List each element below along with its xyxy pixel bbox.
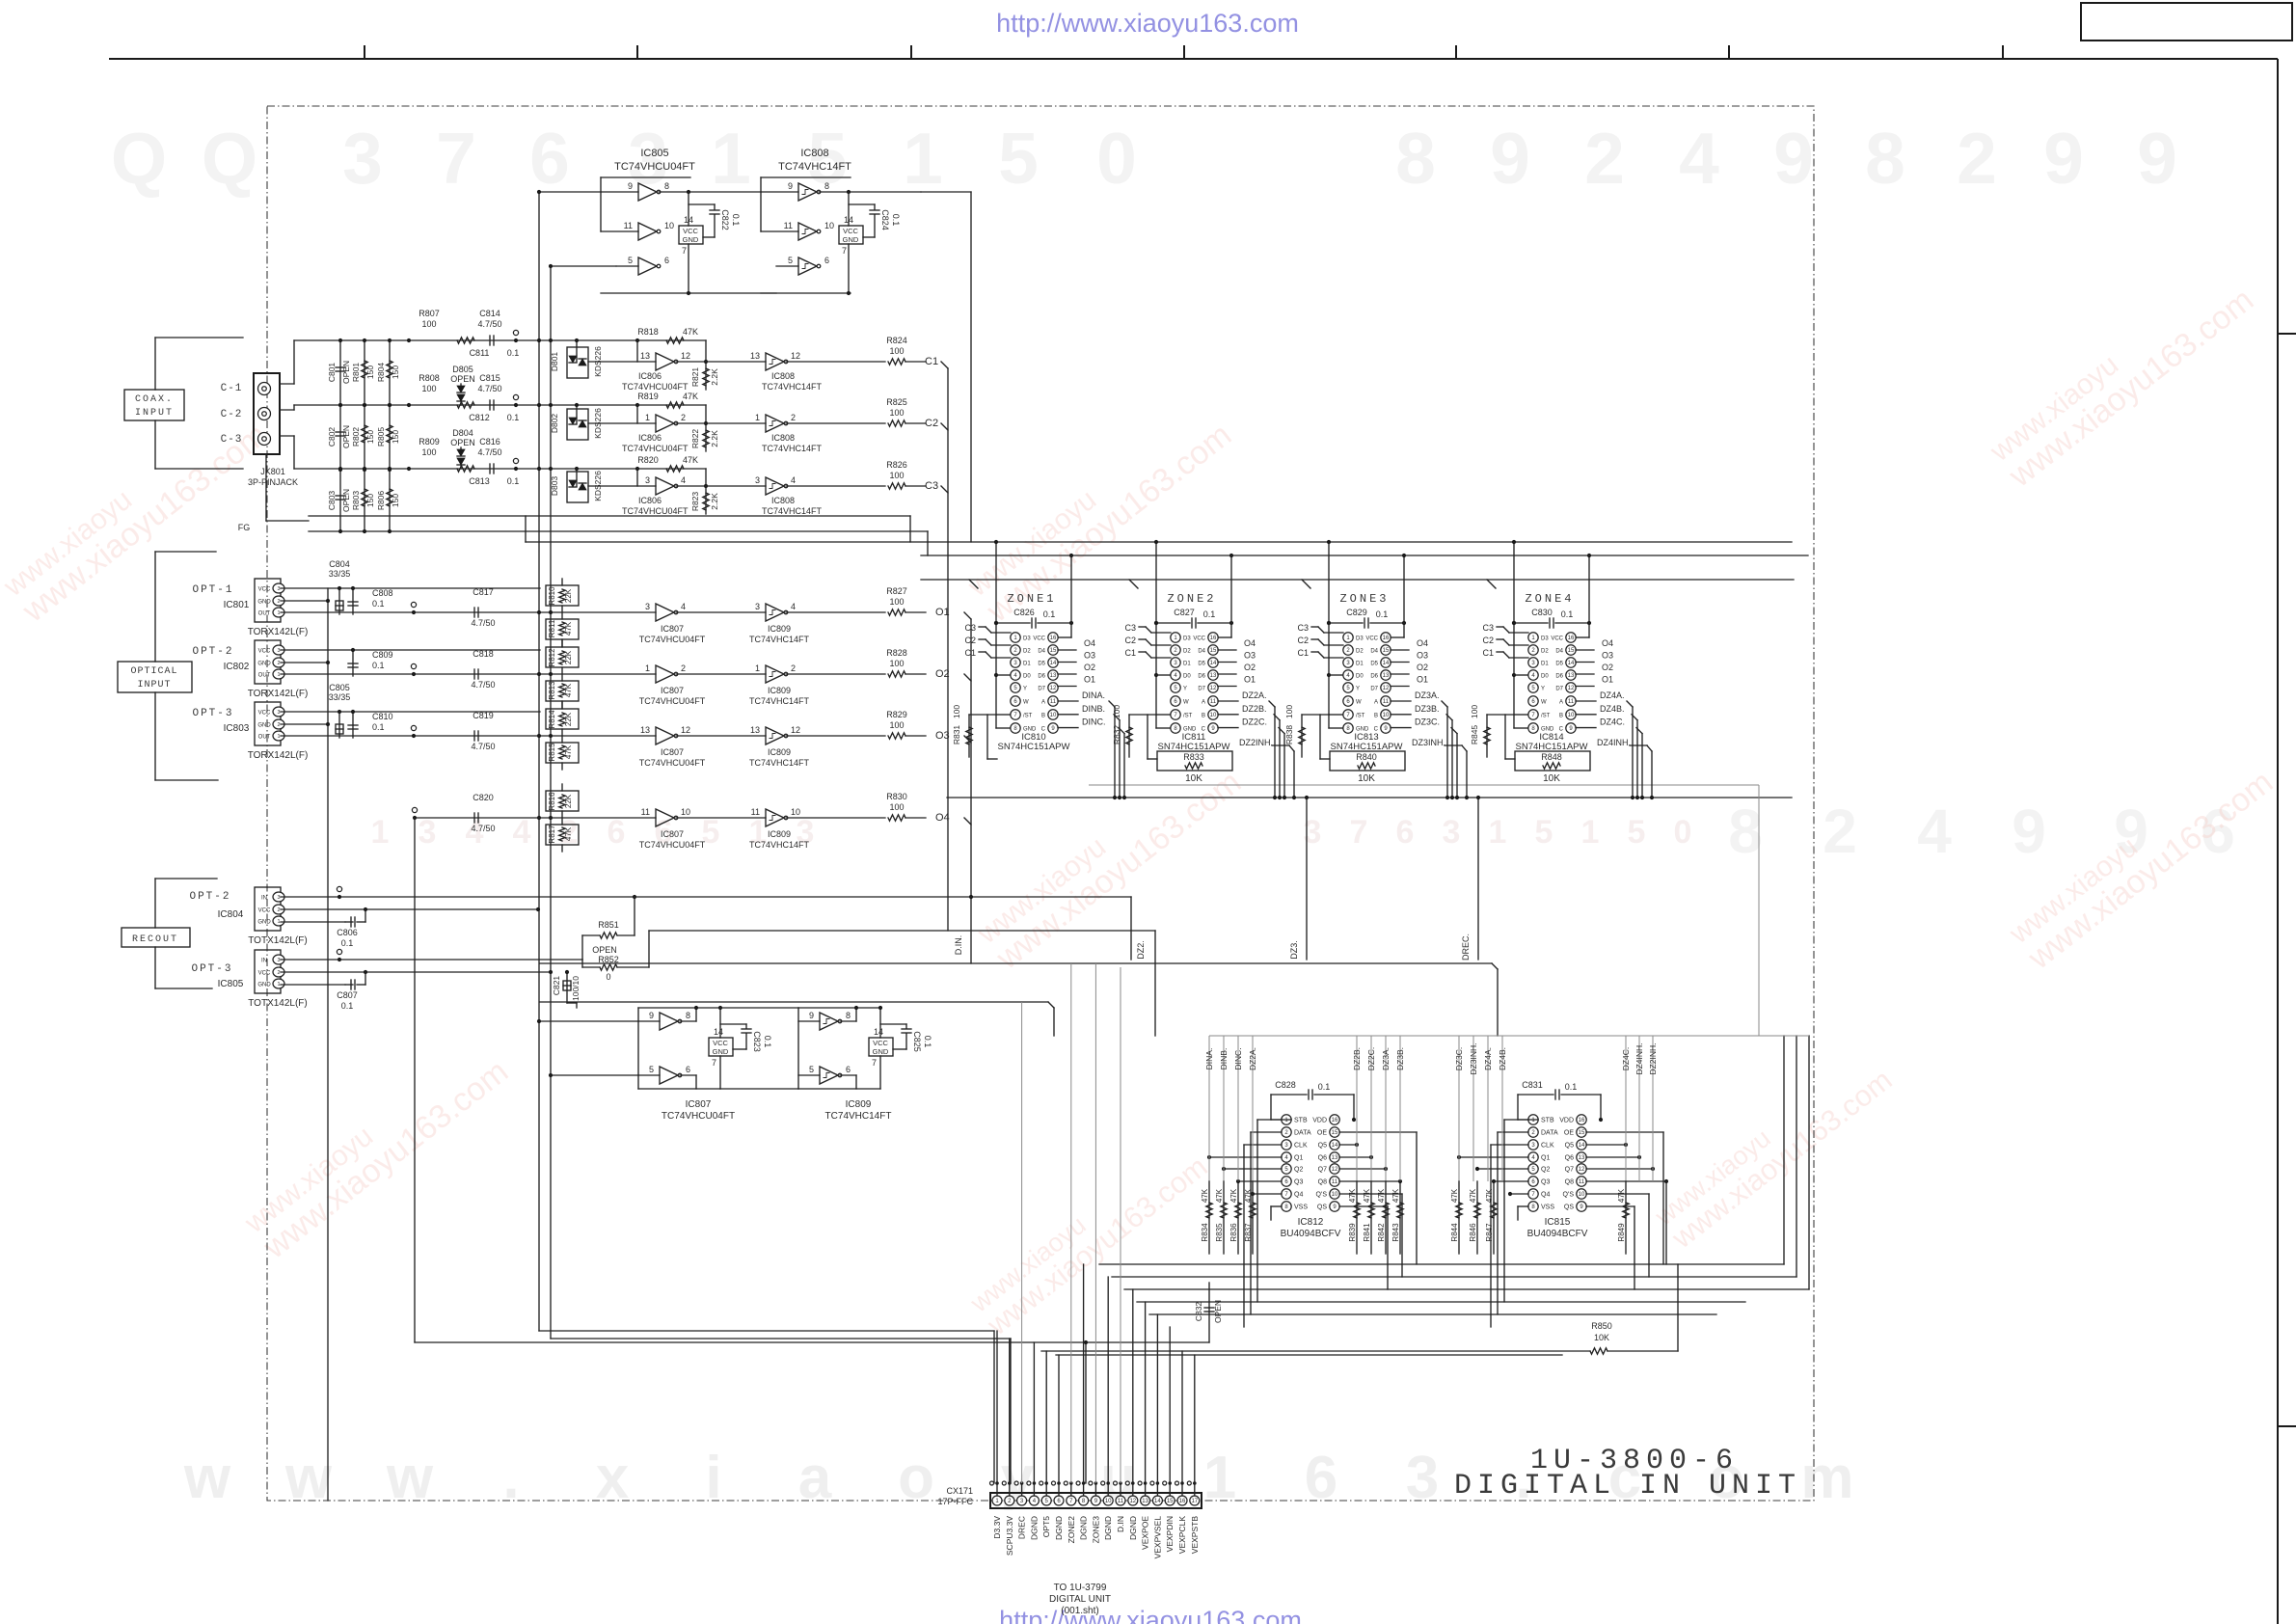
svg-text:C823: C823 <box>752 1031 762 1052</box>
wire <box>1318 639 1324 645</box>
svg-text:VCC: VCC <box>843 227 858 235</box>
svg-text:14: 14 <box>1210 661 1217 666</box>
wire <box>1085 1342 1087 1483</box>
svg-text:3: 3 <box>277 648 280 654</box>
wire <box>637 404 706 406</box>
wire <box>1314 1094 1354 1096</box>
svg-text:3: 3 <box>645 475 650 485</box>
wire <box>281 723 328 725</box>
svg-text:C831: C831 <box>1522 1080 1543 1090</box>
wire <box>576 405 578 423</box>
wire <box>786 735 885 737</box>
wire <box>1634 1206 1635 1289</box>
svg-text:C2: C2 <box>964 636 976 645</box>
optical module IC803 TORX142L(F) <box>255 702 281 745</box>
svg-text:R834: R834 <box>1201 1223 1209 1242</box>
IC810 pin 8 <box>1011 723 1020 733</box>
riser wire <box>1194 1355 1196 1483</box>
svg-text:100: 100 <box>421 447 436 457</box>
jog <box>1625 1036 1627 1041</box>
svg-text:Q: Q <box>111 118 167 199</box>
svg-text:47K: 47K <box>1363 1188 1371 1203</box>
junction <box>1352 1118 1356 1122</box>
wire <box>798 1007 880 1009</box>
power box IC809 <box>869 1038 893 1056</box>
wire <box>720 1007 798 1009</box>
IC814 pin 15 <box>1566 645 1576 655</box>
svg-text:IC808: IC808 <box>771 496 795 505</box>
wire <box>1497 638 1503 640</box>
svg-text:BU4094BCFV: BU4094BCFV <box>1281 1229 1341 1239</box>
svg-text:10: 10 <box>664 221 674 230</box>
svg-text:C1: C1 <box>1124 648 1136 658</box>
svg-text:3: 3 <box>277 586 280 592</box>
wire <box>993 1331 995 1483</box>
svg-text:R840: R840 <box>1356 752 1377 762</box>
wire <box>154 420 156 469</box>
junction <box>1327 540 1331 544</box>
svg-text:C821: C821 <box>552 976 561 996</box>
wire <box>905 422 926 424</box>
wire <box>601 292 690 294</box>
wire <box>582 934 600 936</box>
inverter IC808 1-2 <box>766 415 784 432</box>
IC810 pin 4 <box>1011 670 1020 680</box>
svg-text:12: 12 <box>1568 686 1575 691</box>
junction <box>364 907 367 911</box>
svg-text:11: 11 <box>751 807 760 817</box>
inverter IC807 3-4 <box>656 604 674 621</box>
svg-text:.: . <box>502 1445 519 1511</box>
svg-text:m: m <box>1800 1445 1853 1511</box>
wire <box>1458 1181 1460 1254</box>
junction <box>338 403 342 407</box>
IC810 pin 1 <box>1011 633 1020 642</box>
svg-text:OPT-3: OPT-3 <box>191 963 232 975</box>
connector JK801 3P-PINJACK <box>254 373 280 454</box>
svg-text:1: 1 <box>371 814 390 851</box>
svg-text:IC807: IC807 <box>686 1099 712 1110</box>
svg-text:100: 100 <box>889 597 904 607</box>
svg-text:DINC.: DINC. <box>1082 717 1106 727</box>
wire <box>1370 622 1404 624</box>
wire <box>1576 727 1596 729</box>
IC814 pin 8 <box>1528 723 1538 733</box>
wire <box>676 735 766 737</box>
junction <box>549 403 553 407</box>
svg-text:14: 14 <box>1579 1143 1585 1149</box>
wire <box>848 244 850 293</box>
svg-text:R843: R843 <box>1391 1223 1400 1242</box>
IC813 pin 4 <box>1343 670 1353 680</box>
wire <box>1058 714 1078 716</box>
junction <box>549 610 553 614</box>
svg-text:12: 12 <box>791 351 800 361</box>
junction <box>1222 1167 1226 1171</box>
wire <box>1662 1132 1664 1264</box>
wire <box>1154 931 1156 1036</box>
wire <box>1588 555 1590 623</box>
wire <box>280 383 294 385</box>
wire <box>155 779 218 781</box>
wire <box>1607 1350 1678 1352</box>
wire <box>1306 798 1308 960</box>
schematic dashed boundary <box>267 106 1814 1501</box>
signal line DZ4B. <box>1501 1041 1503 1181</box>
svg-text:100: 100 <box>1470 705 1479 718</box>
power box IC807 <box>709 1038 733 1056</box>
wire <box>979 626 986 628</box>
svg-text:3: 3 <box>277 895 280 901</box>
inverter IC805 pin11-10 <box>638 223 657 240</box>
wire <box>1058 662 1076 663</box>
svg-text:OUT: OUT <box>258 673 271 679</box>
svg-text:O4: O4 <box>1417 638 1428 648</box>
wire <box>705 405 707 451</box>
svg-text:TC74VHCU04FT: TC74VHCU04FT <box>622 506 689 516</box>
wire <box>551 265 616 267</box>
wire <box>1370 1181 1372 1254</box>
signal line DZ2C. <box>1370 1041 1372 1181</box>
svg-text:1: 1 <box>1581 814 1600 851</box>
IC813 pin 2 <box>1343 645 1353 655</box>
wire <box>840 1020 856 1022</box>
wire <box>638 1088 720 1090</box>
svg-text:IC812: IC812 <box>1298 1217 1324 1228</box>
svg-text:15: 15 <box>1579 1130 1585 1136</box>
svg-text:TC74VHC14FT: TC74VHC14FT <box>749 635 810 644</box>
wire <box>688 192 689 226</box>
svg-text:VCC: VCC <box>683 227 698 235</box>
IC813 pin 8 <box>1343 723 1353 733</box>
svg-text:TORX142L(F): TORX142L(F) <box>248 689 309 699</box>
junction <box>1069 554 1073 557</box>
svg-text:TC74VHC14FT: TC74VHC14FT <box>778 161 851 173</box>
riser wire <box>1009 1339 1011 1483</box>
svg-text:DZ3A.: DZ3A. <box>1381 1047 1391 1070</box>
wire <box>761 230 798 232</box>
wire <box>365 909 366 922</box>
wire <box>364 340 365 405</box>
wire <box>1070 1483 1072 1496</box>
svg-text:Y: Y <box>1023 687 1027 692</box>
svg-text:STB: STB <box>1541 1118 1554 1124</box>
svg-text:C-1: C-1 <box>221 383 243 394</box>
wire <box>1497 1132 1499 1314</box>
svg-text:DGND: DGND <box>1054 1516 1064 1540</box>
wire <box>1510 1193 1528 1195</box>
wire <box>849 203 875 205</box>
wire <box>1586 1205 1634 1207</box>
svg-text:O4: O4 <box>1084 638 1095 648</box>
svg-text:4.7/50: 4.7/50 <box>471 618 495 628</box>
wire <box>1503 627 1509 633</box>
jog <box>1252 1036 1254 1041</box>
junction <box>1637 1155 1641 1159</box>
wire <box>1009 1483 1011 1496</box>
svg-text:C808: C808 <box>372 588 393 598</box>
wire <box>1339 1180 1400 1182</box>
svg-text:1: 1 <box>755 663 760 673</box>
label box OPTICAL INPUT <box>118 662 192 692</box>
svg-text:D5: D5 <box>1198 662 1205 667</box>
svg-text:7: 7 <box>712 1058 716 1068</box>
svg-text:0.1: 0.1 <box>923 1036 932 1048</box>
wire <box>561 701 563 708</box>
junction <box>1512 540 1516 544</box>
svg-text:9: 9 <box>1490 118 1530 199</box>
svg-text:100: 100 <box>889 802 904 812</box>
IC812 pin 3 <box>1282 1140 1291 1150</box>
wire <box>879 1056 881 1089</box>
svg-text:D1: D1 <box>1356 662 1364 667</box>
junction <box>1455 796 1459 799</box>
wire <box>1627 701 1633 707</box>
wire <box>996 622 1030 624</box>
IC810 pin 5 <box>1011 683 1020 692</box>
CX171 pin 10 <box>1103 1496 1113 1505</box>
junction <box>363 338 366 342</box>
svg-text:C3: C3 <box>1482 623 1494 633</box>
wire <box>1056 1354 1562 1356</box>
svg-text:TC74VHC14FT: TC74VHC14FT <box>749 696 810 706</box>
wire <box>1209 1156 1282 1158</box>
svg-text:3: 3 <box>1406 1445 1439 1511</box>
svg-text:47K: 47K <box>683 327 698 337</box>
svg-text:OPEN: OPEN <box>341 489 351 512</box>
wire <box>979 651 986 653</box>
riser wire <box>1083 1264 1085 1483</box>
junction <box>1156 1481 1160 1485</box>
wire <box>636 340 638 362</box>
junction <box>704 484 708 488</box>
wire <box>719 1008 721 1038</box>
IC811 pin 16 <box>1208 633 1218 642</box>
junction <box>537 734 541 738</box>
junction <box>549 970 553 974</box>
wire <box>1808 1036 1810 1289</box>
wire <box>1058 686 1076 688</box>
svg-text:TC74VHC14FT: TC74VHC14FT <box>749 758 810 768</box>
wire <box>880 1023 906 1025</box>
svg-text:Q8: Q8 <box>1318 1179 1327 1186</box>
svg-text:47K: 47K <box>1348 1188 1357 1203</box>
wire <box>689 292 776 294</box>
svg-text:VCC: VCC <box>873 1039 888 1047</box>
wire <box>1518 1094 1553 1096</box>
svg-text:6: 6 <box>686 1065 690 1074</box>
svg-text:10: 10 <box>1105 1499 1112 1504</box>
svg-text:DZ2INH.: DZ2INH. <box>1239 738 1273 747</box>
svg-text:TC74VHCU04FT: TC74VHCU04FT <box>622 382 689 392</box>
test point <box>1114 1481 1118 1485</box>
wire <box>154 338 156 390</box>
svg-text:C809: C809 <box>372 650 393 660</box>
svg-text:OPEN: OPEN <box>341 425 351 448</box>
svg-text:12: 12 <box>681 351 690 361</box>
wire <box>986 627 991 633</box>
svg-text:1: 1 <box>645 663 650 673</box>
svg-text:IN: IN <box>261 959 267 964</box>
svg-text:OPT-1: OPT-1 <box>192 584 233 596</box>
svg-text:10: 10 <box>1050 713 1057 718</box>
wire <box>1487 580 1496 588</box>
wire <box>905 611 926 613</box>
svg-text:7: 7 <box>436 118 476 199</box>
power box IC808 VCC/GND <box>839 226 863 244</box>
jog <box>1399 1036 1401 1041</box>
junction <box>338 586 341 590</box>
wire <box>991 657 1011 659</box>
junction <box>1180 1481 1184 1485</box>
resistor R848 10K <box>1515 751 1590 771</box>
svg-text:12: 12 <box>681 725 690 735</box>
svg-text:C811: C811 <box>470 348 490 358</box>
junction <box>338 468 342 472</box>
IC815 pin 5 <box>1528 1164 1538 1174</box>
IC813 pin 9 <box>1381 723 1391 733</box>
wire <box>1576 673 1594 675</box>
svg-text:C829: C829 <box>1346 608 1367 617</box>
svg-text:STB: STB <box>1294 1118 1308 1124</box>
svg-text:a: a <box>798 1445 832 1511</box>
wire <box>1514 622 1548 624</box>
junction <box>514 403 518 407</box>
junction <box>1355 1143 1359 1147</box>
wire <box>761 292 851 294</box>
svg-text:INPUT: INPUT <box>135 408 174 419</box>
IC813 pin 14 <box>1381 658 1391 667</box>
svg-text:D2: D2 <box>1023 649 1031 655</box>
svg-text:GND: GND <box>257 723 271 729</box>
wire <box>1223 1181 1225 1254</box>
junction <box>878 1006 882 1010</box>
wire <box>637 468 706 470</box>
svg-text:12: 12 <box>1050 686 1057 691</box>
svg-text:2: 2 <box>791 663 796 673</box>
wire <box>1576 686 1594 688</box>
wire <box>352 712 354 738</box>
svg-text:VEXPCLK: VEXPCLK <box>1177 1516 1187 1555</box>
wire <box>1588 623 1590 637</box>
wire <box>309 515 910 517</box>
svg-text:VSS: VSS <box>1541 1204 1554 1211</box>
junction <box>363 468 366 472</box>
wire <box>1329 714 1342 716</box>
svg-text:0.1: 0.1 <box>1561 609 1574 619</box>
IC810 pin 7 <box>1011 710 1020 719</box>
wire <box>1129 580 1138 588</box>
IC811 pin 3 <box>1171 658 1180 667</box>
svg-text:D5: D5 <box>1370 662 1378 667</box>
inverter IC806 1-2 <box>656 415 674 432</box>
wire <box>1230 555 1232 623</box>
junction <box>1475 1167 1479 1171</box>
junction <box>687 190 690 194</box>
svg-text:CX171: CX171 <box>946 1486 973 1496</box>
svg-text:C2: C2 <box>1297 636 1309 645</box>
IC810 pin 11 <box>1048 696 1058 706</box>
svg-text:100: 100 <box>1112 705 1121 718</box>
svg-text:6: 6 <box>1396 814 1415 851</box>
junction <box>994 621 998 625</box>
wire <box>1391 686 1409 688</box>
svg-text:11: 11 <box>1050 699 1057 705</box>
wire <box>947 797 1792 798</box>
svg-text:5: 5 <box>649 1065 654 1074</box>
border tick mark <box>364 45 365 59</box>
svg-text:DZ4C.: DZ4C. <box>1621 1047 1631 1071</box>
svg-text:0.1: 0.1 <box>507 413 520 422</box>
wire <box>1442 701 1447 707</box>
wire <box>281 735 656 737</box>
svg-text:10: 10 <box>1332 1192 1338 1198</box>
IC814 pin 9 <box>1566 723 1576 733</box>
wire <box>357 984 365 986</box>
svg-text:100: 100 <box>889 471 904 480</box>
junction <box>1057 1481 1061 1485</box>
wire <box>525 516 527 542</box>
wire <box>265 454 267 521</box>
junction <box>351 710 355 714</box>
riser wire <box>996 1331 998 1483</box>
wire <box>281 971 551 973</box>
wire <box>909 516 911 542</box>
svg-text:D7: D7 <box>1555 687 1563 692</box>
svg-text:33/35: 33/35 <box>329 569 351 579</box>
svg-text:10: 10 <box>1210 713 1217 718</box>
svg-text:33/35: 33/35 <box>329 692 351 702</box>
IC810 pin 13 <box>1048 670 1058 680</box>
svg-text:14: 14 <box>1383 661 1390 666</box>
svg-text:TC74VHCU04FT: TC74VHCU04FT <box>622 444 689 453</box>
wire <box>1446 707 1448 798</box>
svg-text:Q7: Q7 <box>1565 1167 1574 1174</box>
svg-text:R846: R846 <box>1469 1223 1477 1242</box>
junction <box>338 403 342 407</box>
wire <box>1466 751 1468 798</box>
svg-text:10K: 10K <box>1543 773 1560 784</box>
junction <box>549 1073 553 1077</box>
svg-text:0: 0 <box>606 972 610 982</box>
wire <box>1339 1168 1386 1170</box>
junction <box>1251 1192 1255 1196</box>
wire <box>1324 644 1343 646</box>
svg-text:R827: R827 <box>886 586 907 596</box>
wire <box>1124 1288 1809 1290</box>
svg-text:TC74VHCU04FT: TC74VHCU04FT <box>614 161 695 173</box>
wire <box>1301 715 1303 757</box>
CX171 pin 17 <box>1190 1496 1200 1505</box>
wire <box>1130 897 1132 960</box>
wire <box>760 177 762 231</box>
IC815 pin 16 <box>1577 1115 1586 1124</box>
junction <box>388 529 392 533</box>
IC812 pin 4 <box>1282 1152 1291 1162</box>
junction <box>407 467 411 471</box>
junction <box>412 734 416 738</box>
junction <box>351 586 355 590</box>
svg-text:47K: 47K <box>564 744 573 759</box>
riser wire <box>1156 1314 1158 1483</box>
resistor R833 10K <box>1157 751 1232 771</box>
wire <box>1083 1483 1085 1496</box>
wire <box>1302 714 1329 716</box>
wire <box>874 204 876 209</box>
wire <box>1151 644 1171 646</box>
svg-text:7: 7 <box>682 246 687 256</box>
svg-text:R839: R839 <box>1348 1223 1357 1242</box>
